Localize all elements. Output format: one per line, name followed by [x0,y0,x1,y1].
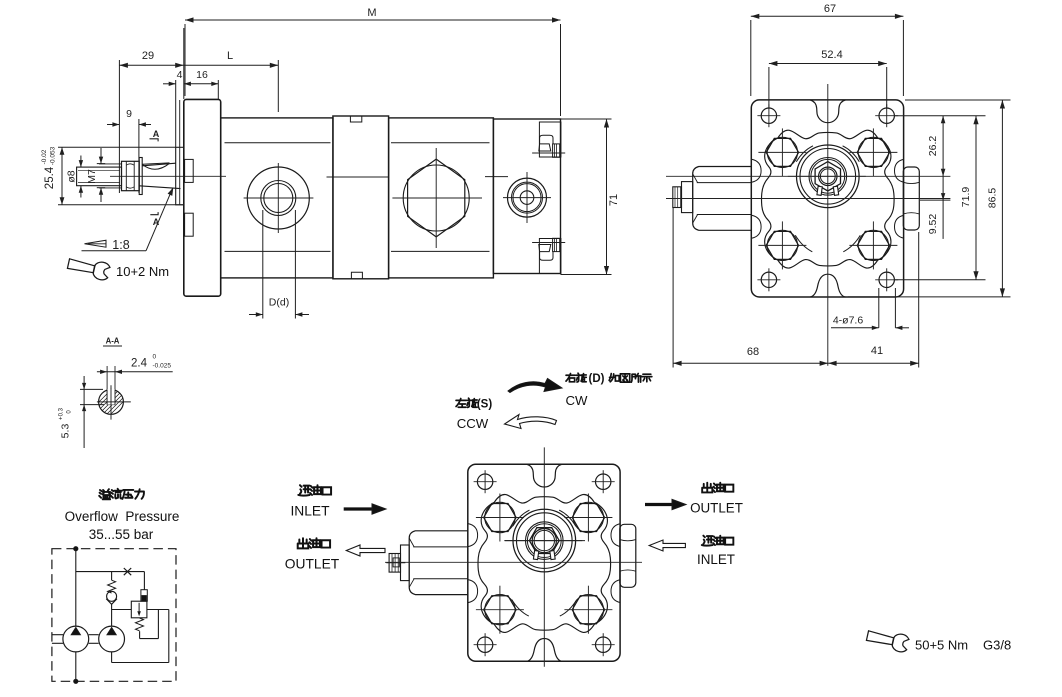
svg-text:-0.025: -0.025 [153,363,172,370]
hatching [99,378,124,427]
dim 68 [672,208,674,368]
dim 52.4 [769,63,887,65]
dim L [184,64,279,66]
svg-text:-0.053: -0.053 [50,146,57,165]
CCW rotation arrow (outline) [505,415,557,429]
svg-text:29: 29 [142,50,154,62]
dim 4 [163,83,176,85]
check valve: spring [108,580,116,593]
svg-text:+0.3: +0.3 [59,407,65,420]
shaft nut [122,161,140,190]
wrench 50+5 Nm [866,627,910,653]
label outlet right [702,483,712,493]
plugged port X [124,568,131,575]
svg-text:35...55 bar: 35...55 bar [89,527,154,542]
centerline horizontal shaft [666,175,950,177]
centerline vertical [827,84,829,366]
dim 4-o7.6 [878,288,880,328]
wire: suction riser [75,549,77,626]
centerlines bottom view [543,447,545,666]
hex screws 4x [476,493,524,541]
front view top-right: mounting flange [673,100,920,297]
svg-text:A-A: A-A [106,337,120,346]
svg-text:2.4: 2.4 [131,358,148,370]
dim 9 [107,124,119,126]
dim M7 [100,148,102,164]
wire: down to pilot box [143,572,145,590]
check valve ball [107,591,117,601]
dim 5.3 [80,388,103,390]
dim M [185,19,561,21]
woodruff key [143,163,170,164]
dim o8 [80,156,82,168]
rear cover [493,119,560,274]
svg-text:G3/8: G3/8 [983,638,1011,653]
svg-text:9.52: 9.52 [927,214,939,235]
svg-text:50+5 Nm: 50+5 Nm [915,638,968,653]
wrench 10+2 Nm [67,255,111,281]
casting contour [761,130,894,268]
relief spring [136,618,144,631]
dim 2.4 [97,371,173,373]
washer [139,158,142,195]
svg-text:-0.02: -0.02 [41,149,48,164]
rear fitting bottom [539,239,561,274]
svg-text:4-ø7.6: 4-ø7.6 [833,315,864,327]
svg-text:67: 67 [824,3,836,15]
body section 2 [389,118,494,278]
label CW chinese: you-xuan (D) ru-tu-suo-shi [566,374,575,382]
wires: check valve branch [111,572,113,581]
svg-text:10+2 Nm: 10+2 Nm [116,264,169,279]
node dot bottom [74,679,78,683]
svg-text:(S): (S) [477,399,493,411]
svg-text:M: M [367,7,376,19]
svg-text:CCW: CCW [457,416,489,431]
rear port circle [508,178,547,217]
rear fitting top [539,122,561,157]
svg-text:OUTLET: OUTLET [690,501,743,516]
corner bolt holes 4x o7.6 [761,108,776,123]
dim 29 [119,64,183,66]
dim 71.9 [895,279,986,281]
wire: branch to valve [76,571,145,573]
crosshair [97,401,131,403]
svg-text:5.3: 5.3 [60,424,72,439]
svg-text:68: 68 [747,346,759,358]
drive shaft lines [52,634,63,636]
arrow outline left (right side) [649,540,685,551]
dim 67 [751,15,904,17]
svg-text:OUTLET: OUTLET [285,557,340,572]
svg-text:0: 0 [153,354,157,361]
pilot element [141,590,147,602]
svg-text:(D): (D) [589,373,605,385]
arrow outline left (left side) [346,545,385,556]
right side port boss [903,167,919,230]
svg-text:INLET: INLET [290,504,330,519]
spacer section [333,116,389,279]
dim D(d) [262,210,264,319]
side view: pump assembly left elevation [77,99,566,296]
pilot boss [176,147,184,205]
central shaft boss w/ nut [797,145,860,208]
port circle body1 [247,167,309,229]
svg-text:25.4: 25.4 [44,166,56,189]
svg-text:52.4: 52.4 [821,49,842,61]
front flange plate [184,99,221,296]
label inlet left [298,485,309,495]
section marker A bottom [150,212,158,215]
svg-text:L: L [227,50,233,62]
plate boss upper [185,159,194,182]
right port boss [620,524,636,587]
arrow solid right (left side) [344,507,372,510]
svg-text:Overflow Pressure: Overflow Pressure [65,509,180,524]
check valve seat [106,599,117,605]
svg-text:86.5: 86.5 [987,188,999,209]
dim o25.4 [58,146,176,148]
schematic dashed boundary [52,549,176,682]
hex plug body2 [403,165,469,231]
centerline port axis [666,198,950,200]
CW rotation arrow (solid) [508,379,562,393]
central shaft boss [513,509,576,572]
svg-text:M7: M7 [86,169,98,184]
svg-text:INLET: INLET [697,552,735,567]
body section 1 [221,118,333,278]
dim 26.2 [895,115,986,117]
dim 9.52 [920,199,950,201]
shaft cross-section circle [99,390,124,415]
svg-text:4: 4 [177,69,183,81]
wire: shaft centerline [110,175,226,177]
dim 86.5 [905,99,1011,101]
label outlet left [298,538,309,548]
svg-text:A: A [153,129,160,139]
overflow pressure title [99,489,110,499]
relief valve box [131,601,147,618]
svg-text:1:8: 1:8 [112,238,129,252]
hex screws 4x [758,128,806,176]
bottom front view flange [386,464,636,661]
svg-text:71.9: 71.9 [960,187,972,208]
tapered shaft 1:8 [142,163,176,166]
label CCW chinese: zuo-xuan (S) [456,399,466,408]
dim 71 side [561,118,612,120]
node dot top [74,547,78,551]
svg-text:41: 41 [871,345,883,357]
label inlet right [702,536,713,546]
plate boss lower [185,213,194,236]
svg-text:16: 16 [196,69,208,81]
left fitting plug [693,167,752,231]
svg-text:ø8: ø8 [66,170,78,182]
section line A-A [179,100,181,205]
wire: valve outlet loops [147,609,169,611]
shaft thread M7 [77,167,122,186]
corner holes with crosshairs [477,474,492,489]
svg-text:D(d): D(d) [269,297,289,309]
svg-text:9: 9 [126,108,132,120]
svg-text:71: 71 [608,194,620,206]
dim 41 [828,362,919,364]
svg-text:26.2: 26.2 [927,136,939,157]
pump 2 [99,626,125,652]
taper symbol 1:8 leader [85,240,107,247]
pump 1 [63,626,89,652]
arrow solid right (right side) [645,503,672,506]
svg-text:CW: CW [566,393,589,408]
keyway slot [106,366,108,405]
relief valve fitting left [409,531,468,595]
dim 16 [184,83,218,85]
